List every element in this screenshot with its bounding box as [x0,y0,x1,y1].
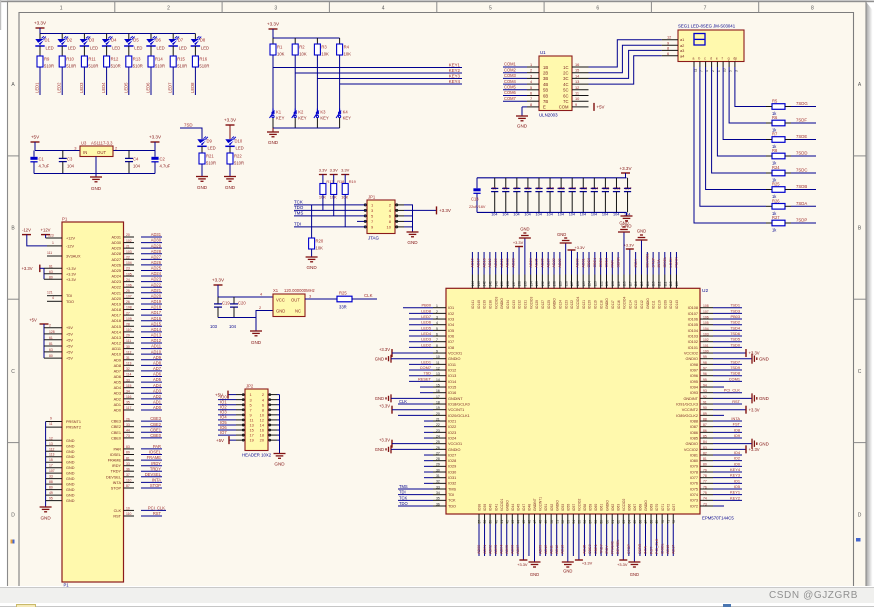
svg-text:f: f [722,57,723,61]
svg-text:PAR: PAR [611,260,615,268]
wire JP1 pins 6,8,10 to GND rail [404,215,413,217]
wire / net CLK (U2 GCLK0) [398,403,433,405]
svg-text:104: 104 [67,164,75,169]
svg-text:AD28: AD28 [112,252,122,256]
svg-text:80: 80 [703,463,707,467]
wire / net STOP (top) [652,252,654,275]
svg-text:IO110: IO110 [658,300,662,309]
svg-text:13: 13 [436,372,440,376]
svg-text:-12V: -12V [66,244,74,248]
svg-text:2: 2 [530,68,532,73]
svg-text:49: 49 [544,520,548,524]
svg-text:CBE1: CBE1 [150,427,161,432]
svg-text:IO73: IO73 [690,499,698,503]
svg-text:IO93: IO93 [690,391,698,395]
svg-text:130: 130 [553,281,557,287]
svg-text:+5V: +5V [66,345,73,349]
LED D7 [172,34,174,40]
svg-text:55: 55 [578,520,582,524]
wire / net IDSEL (bottom) [661,524,663,556]
svg-text:132: 132 [541,281,545,287]
svg-text:IO2: IO2 [734,456,740,461]
wire / net AD17 (top) [477,252,479,275]
svg-text:IO109: IO109 [663,300,667,309]
svg-text:6C: 6C [563,93,568,98]
svg-text:C15: C15 [602,187,609,191]
svg-text:GNDINT: GNDINT [683,397,698,401]
svg-text:AD22: AD22 [506,258,510,267]
wire / net AD06 (bottom) [511,524,513,556]
svg-text:+5V: +5V [597,105,605,110]
wire / net TMS (U2) [398,488,433,490]
power +3.3V (U2 top mid) [571,250,573,275]
ground (R20) [311,249,313,257]
power +3.3V (U2 bottom mid) [578,524,580,560]
wire / net AD13 (bottom) [561,524,563,556]
svg-text:115: 115 [126,384,132,388]
svg-text:104: 104 [524,213,530,217]
svg-text:AD1: AD1 [153,400,162,405]
resistor R1 [272,38,274,44]
svg-text:RST: RST [732,399,740,404]
svg-text:510R: 510R [155,64,165,69]
svg-text:K2: K2 [298,110,304,115]
resistor R2 [294,38,296,44]
svg-text:IO77: IO77 [690,476,698,480]
svg-text:AD2: AD2 [153,394,162,399]
wire GND pin (P1) [46,478,62,480]
LED D6 [150,34,152,40]
svg-text:PERR: PERR [675,257,679,268]
svg-text:R27: R27 [772,215,780,220]
wire stub [424,437,433,439]
svg-text:AD30: AD30 [151,238,162,243]
svg-text:JP2: JP2 [246,384,254,389]
svg-text:510R: 510R [66,64,76,69]
svg-text:AD24: AD24 [151,271,162,276]
svg-text:AD6: AD6 [153,372,162,377]
svg-text:IO3: IO3 [448,317,454,321]
svg-text:129: 129 [558,281,562,287]
svg-text:104: 104 [513,213,519,217]
svg-text:104: 104 [229,324,237,329]
wire / net IO1 [218,404,236,406]
svg-text:IO129: IO129 [535,300,539,309]
wire GND pin (P1) [46,500,62,502]
svg-text:R25: R25 [339,291,347,296]
svg-text:5B: 5B [543,88,548,93]
svg-text:117: 117 [628,281,632,286]
svg-text:IO1: IO1 [448,306,454,310]
svg-text:COM6: COM6 [504,90,517,95]
svg-text:KEY: KEY [343,116,352,121]
wire GND pin (P1) [46,467,62,469]
svg-text:11: 11 [436,361,440,365]
svg-text:510R: 510R [44,64,54,69]
wire stub [424,465,433,467]
svg-text:109: 109 [675,281,679,287]
wire / net KEY3 [713,477,742,479]
wire GND pin (P1) [46,494,62,496]
power +5V (JP2 pin19) [229,439,236,441]
svg-text:IO71: IO71 [661,504,665,511]
svg-text:R19: R19 [349,179,356,184]
svg-text:7SD8: 7SD8 [730,371,740,376]
capacitor C3 [62,151,64,159]
wire / net AD21 (top) [501,252,503,275]
svg-text:IO8: IO8 [448,346,454,350]
svg-text:+12V: +12V [66,237,75,241]
svg-text:IO98: IO98 [690,363,698,367]
svg-text:107: 107 [703,310,709,314]
svg-text:DEVSEL: DEVSEL [106,475,121,479]
svg-text:IO124: IO124 [558,300,562,309]
svg-text:108: 108 [126,306,132,310]
wire R17 to TDO [322,195,324,211]
svg-text:D10: D10 [235,139,243,144]
svg-text:3B: 3B [543,76,548,81]
svg-text:IO57: IO57 [572,504,576,511]
svg-text:60: 60 [605,520,609,524]
svg-text:104: 104 [133,164,141,169]
svg-text:D7: D7 [178,37,184,42]
svg-text:IO117: IO117 [611,300,615,309]
svg-text:C17: C17 [625,187,632,191]
svg-text:7SD6: 7SD6 [730,331,740,336]
capacitor C6 [505,178,507,189]
svg-text:IO63: IO63 [616,504,620,511]
wire / net LED6 [409,324,433,326]
svg-text:IO9: IO9 [734,433,740,438]
svg-text:IO39: IO39 [483,504,487,511]
svg-text:10: 10 [126,507,130,511]
svg-text:11: 11 [575,91,579,96]
svg-text:CBE1: CBE1 [594,544,598,554]
svg-text:30: 30 [126,345,130,349]
svg-text:LED1: LED1 [421,359,431,364]
svg-text:DEVSEL: DEVSEL [616,539,620,554]
wire ULN 2C to display [589,45,662,72]
wire / net 7SDE [791,139,816,141]
svg-text:32: 32 [126,367,130,371]
svg-text:120.000000MHz: 120.000000MHz [284,288,315,293]
svg-text:IO44: IO44 [511,504,515,511]
svg-text:26: 26 [126,417,130,421]
svg-text:3: 3 [436,315,438,319]
svg-text:73: 73 [703,502,707,506]
svg-text:101: 101 [703,344,709,348]
wire ULN 4C to display [589,56,662,84]
svg-text:GNDIO: GNDIO [686,442,698,446]
svg-text:VCCIO3: VCCIO3 [494,297,498,309]
svg-text:7SD0: 7SD0 [730,342,741,347]
svg-text:PB00: PB00 [421,303,431,308]
svg-text:104: 104 [580,213,586,217]
svg-text:GND: GND [375,356,384,361]
wire GND pin (P1) [46,483,62,485]
svg-text:95: 95 [49,497,53,501]
svg-text:IO16: IO16 [448,391,456,395]
svg-text:D5: D5 [133,37,139,42]
svg-text:62: 62 [616,520,620,524]
svg-text:AD30: AD30 [576,258,580,267]
wire / net INTA (top) [658,252,660,275]
svg-text:104: 104 [502,213,508,217]
svg-text:IO106: IO106 [688,317,698,321]
svg-text:+3.3V: +3.3V [379,347,390,352]
svg-text:AD06: AD06 [511,545,515,554]
svg-text:7SDB: 7SDB [796,184,807,189]
svg-text:IO29: IO29 [448,465,456,469]
wire / net RESET [409,380,433,382]
svg-text:IO119: IO119 [593,300,597,309]
svg-text:LED3: LED3 [79,82,84,93]
svg-text:AD14: AD14 [151,327,162,332]
svg-text:102: 102 [126,239,132,243]
wire / net INTA [713,420,742,422]
svg-text:124: 124 [588,281,592,287]
power +3.3V (U2 VCCINT1) [391,406,393,414]
ground (JP2) [274,453,286,455]
svg-text:7SD1: 7SD1 [730,303,740,308]
svg-text:GND: GND [637,229,646,234]
svg-text:135: 135 [523,281,527,287]
svg-text:510R: 510R [199,64,209,69]
wire / net SERR (top) [617,252,619,275]
svg-text:IO48: IO48 [528,504,532,511]
svg-text:FRAME: FRAME [108,459,122,463]
svg-text:37: 37 [126,473,130,477]
capacitor C16 [615,178,617,189]
svg-text:AD5: AD5 [114,381,121,385]
svg-text:1: 1 [436,304,438,308]
wire / net COM2 [503,72,527,74]
wire / net AD00 (bottom) [478,524,480,556]
wire / net 7SD9 [713,369,742,371]
svg-text:AD9: AD9 [114,358,121,362]
svg-text:6: 6 [530,91,532,96]
wire / net AD05 (bottom) [506,524,508,556]
resistor R10 [59,56,65,67]
wire / net KEY1 [273,67,462,69]
svg-text:AD4: AD4 [153,383,162,388]
wire / net AD16 (top) [471,252,473,275]
svg-text:IO134: IO134 [506,300,510,309]
svg-text:10K: 10K [299,52,307,57]
svg-text:GND: GND [276,309,285,314]
svg-text:KEY3: KEY3 [449,73,461,78]
svg-text:GNDINT: GNDINT [448,397,463,401]
ground (JP1) [407,231,419,233]
svg-text:IO94: IO94 [690,385,698,389]
power +3.3V (U2 VCCIO1 lower) [391,440,393,448]
svg-text:+3.3V: +3.3V [379,438,390,443]
svg-text:NC: NC [295,309,301,314]
svg-text:AD24: AD24 [112,275,122,279]
svg-text:AD15: AD15 [583,545,587,554]
svg-text:IO120: IO120 [588,300,592,309]
svg-text:AS1117-3.3: AS1117-3.3 [91,141,113,146]
svg-text:AD23: AD23 [151,277,162,282]
IC U2 EPM570T144C5 [446,288,700,514]
svg-text:GND: GND [66,439,75,443]
capacitor C7 [516,178,518,189]
svg-text:GND: GND [530,572,539,577]
wire / net FRAME (bottom) [611,524,613,556]
svg-text:COM4: COM4 [504,79,517,84]
wire display pin 7 [728,62,730,68]
svg-text:3.3V: 3.3V [330,168,339,173]
wire GND pin (P1) [46,456,62,458]
svg-text:AD20: AD20 [151,293,162,298]
svg-text:25: 25 [126,289,130,293]
svg-text:AD16: AD16 [112,319,122,323]
svg-text:58: 58 [594,520,598,524]
svg-text:116: 116 [634,281,638,286]
wire / net RST [713,403,742,405]
svg-text:+5V: +5V [66,357,73,361]
wire / net LED7 [409,318,433,320]
svg-text:75: 75 [703,491,707,495]
wire / net LED3 [83,67,85,95]
svg-text:+5V: +5V [66,350,73,354]
svg-text:113: 113 [652,281,656,286]
resistor R9 [37,56,43,67]
resistor R17 [320,184,326,195]
wire / net IO7 [218,434,236,436]
svg-text:22: 22 [436,423,440,427]
svg-text:AD7: AD7 [153,366,162,371]
svg-text:IO24: IO24 [448,436,456,440]
svg-text:JTAG: JTAG [368,236,379,241]
svg-text:IO78: IO78 [690,470,698,474]
wire display pin 4 [711,62,713,68]
svg-text:R25: R25 [772,182,780,187]
svg-text:OUT: OUT [97,150,106,155]
wire / net 7SD1 [713,307,742,309]
wire / net AD15 (bottom) [583,524,585,556]
ground (P1) [40,506,52,508]
wire / net TDI [294,226,367,228]
svg-text:TMS: TMS [399,484,408,489]
wire / net AD01 (bottom) [484,524,486,556]
svg-text:AD0: AD0 [153,405,162,410]
svg-text:AD27: AD27 [151,254,162,259]
capacitor C9 [538,178,540,189]
svg-text:126: 126 [576,281,580,287]
svg-text:31: 31 [126,356,130,360]
wire stub [713,386,724,388]
svg-text:GNDIO: GNDIO [448,448,460,452]
svg-text:4.7uF: 4.7uF [160,164,171,169]
svg-text:IO69: IO69 [650,504,654,511]
wire / net 7SD7 [713,363,742,365]
svg-text:C14: C14 [591,187,598,191]
svg-text:144: 144 [471,281,475,287]
svg-text:9: 9 [575,102,577,107]
svg-text:9: 9 [50,416,52,420]
svg-text:K3: K3 [320,110,326,115]
svg-text:TRDY: TRDY [111,470,122,474]
wire R18 to TMS [333,195,335,216]
wire / net LED8 [194,67,196,95]
svg-text:IO72: IO72 [690,504,698,508]
svg-text:+3.3V: +3.3V [749,351,760,356]
svg-text:7SD4: 7SD4 [730,325,741,330]
svg-text:PCI_CLK: PCI_CLK [724,388,741,393]
svg-text:110: 110 [126,512,132,516]
wire display pin 2 [699,62,701,68]
wire / net COM7 [409,369,433,371]
right ruler marker artifact [856,538,861,542]
svg-text:R7: R7 [772,132,778,137]
svg-text:GND: GND [40,516,51,521]
svg-text:33: 33 [126,423,130,427]
svg-text:GND: GND [619,221,628,226]
svg-text:AD07: AD07 [516,545,520,554]
LED D5 [128,34,130,40]
svg-text:AD18: AD18 [151,305,162,310]
wire / net CLK [352,298,377,300]
svg-text:AD12: AD12 [555,545,559,554]
wire display pin 3 [705,62,707,68]
svg-text:114: 114 [646,281,650,286]
svg-text:+3.3V: +3.3V [267,22,280,27]
resistor R12 [104,56,110,67]
svg-text:GND: GND [225,185,236,190]
wire R19 to TDI [344,195,346,227]
resistor R13 [126,56,132,67]
svg-text:C1: C1 [39,157,45,162]
svg-text:AD15: AD15 [112,325,122,329]
svg-text:3.3V: 3.3V [319,168,328,173]
svg-text:GND: GND [66,455,75,459]
U2 top pins [471,275,679,310]
svg-text:7SD2: 7SD2 [730,320,740,325]
svg-text:33: 33 [126,462,130,466]
svg-text:INTA: INTA [731,416,740,421]
svg-text:IDSEL: IDSEL [110,453,121,457]
svg-text:AD3: AD3 [153,388,162,393]
svg-text:IO51: IO51 [544,504,548,511]
svg-text:C13: C13 [580,187,587,191]
svg-text:R14: R14 [155,57,163,62]
svg-text:20: 20 [436,412,440,416]
svg-text:R6: R6 [772,115,778,120]
capacitor C5 [494,178,496,189]
svg-text:VCCINT2: VCCINT2 [682,408,698,412]
svg-text:P1: P1 [62,217,68,222]
capacitor C2 [154,151,156,157]
svg-text:LED: LED [201,45,209,50]
svg-text:TRDY: TRDY [150,466,161,471]
wire / net TCK (U2) [398,499,433,501]
svg-text:IO80: IO80 [690,459,698,463]
svg-text:IO13: IO13 [448,374,456,378]
svg-text:+3.3V: +3.3V [749,447,760,452]
svg-text:4.7uF: 4.7uF [39,164,50,169]
svg-text:+3.3V: +3.3V [624,243,635,248]
svg-text:AD24: AD24 [529,258,533,267]
wire / net 7SD [409,375,433,377]
svg-text:AD22: AD22 [151,282,162,287]
svg-text:IO86: IO86 [690,431,698,435]
svg-text:IO125: IO125 [547,300,551,309]
connector JP1 JTAG [367,200,395,234]
svg-text:AD10: AD10 [112,353,122,357]
svg-text:e: e [716,57,718,61]
LED D4 [106,34,108,40]
